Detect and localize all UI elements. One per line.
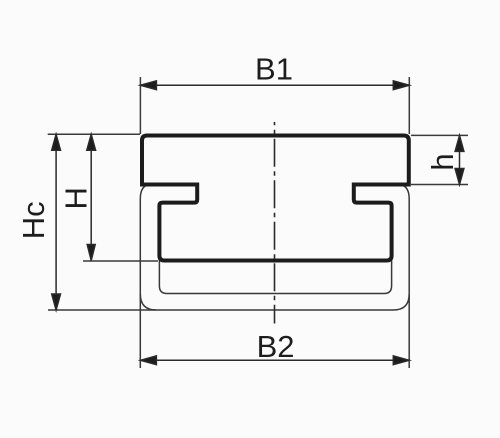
svg-text:H: H [59,187,94,209]
svg-text:B1: B1 [255,51,293,86]
svg-text:h: h [425,153,460,170]
svg-text:B2: B2 [257,329,295,364]
svg-text:Hc: Hc [16,201,51,239]
